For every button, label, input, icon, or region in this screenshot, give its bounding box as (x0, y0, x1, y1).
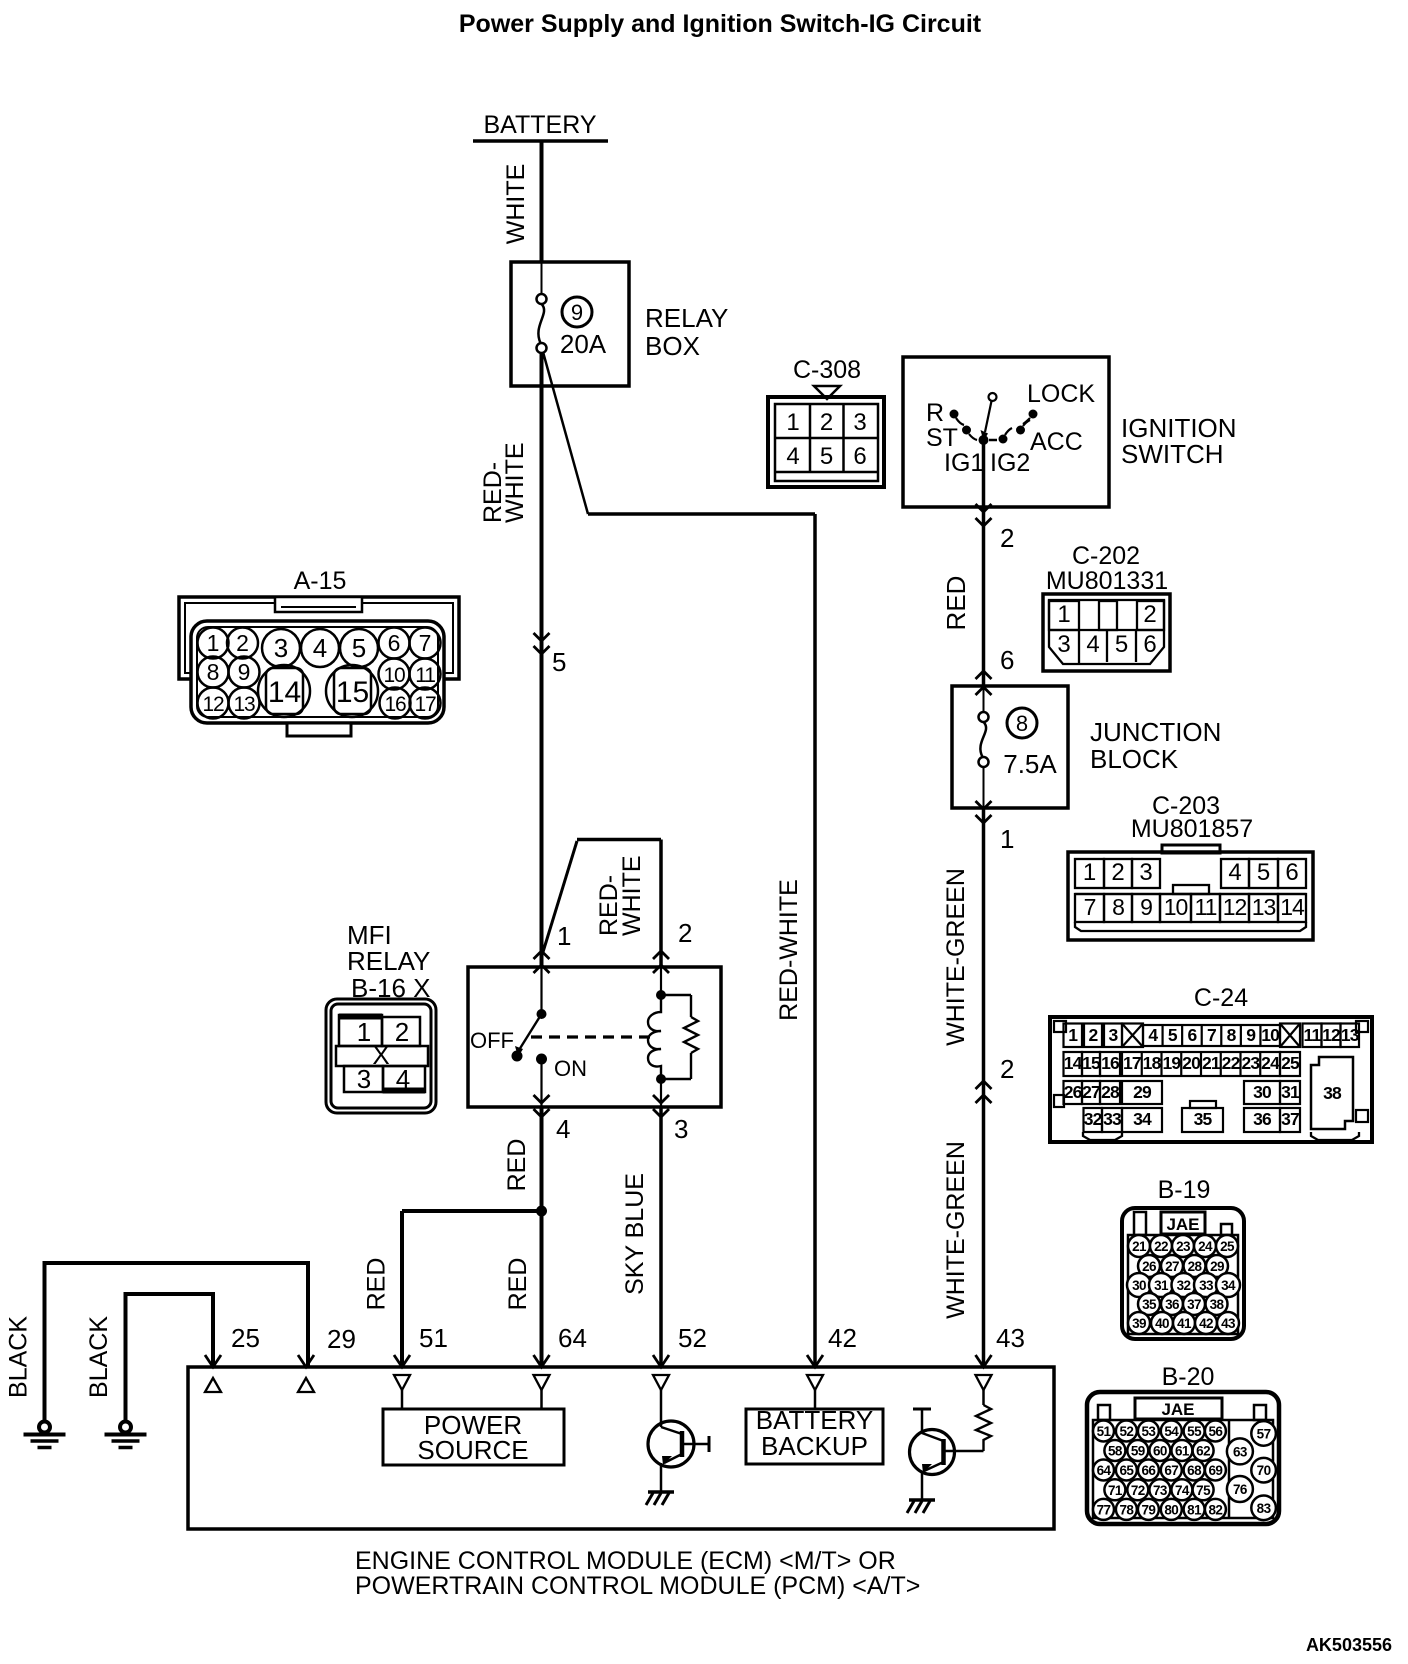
A-15 pin 15 (326, 665, 378, 717)
svg-text:AK503556: AK503556 (1306, 1635, 1392, 1655)
svg-text:51: 51 (419, 1323, 448, 1353)
svg-text:52: 52 (678, 1323, 707, 1353)
svg-text:12: 12 (1223, 894, 1247, 920)
svg-text:8: 8 (1016, 711, 1028, 736)
svg-text:62: 62 (1196, 1444, 1210, 1459)
contact dot R (950, 410, 959, 419)
MFI coil wire upper (660, 967, 662, 995)
resistor R1 (976, 1405, 991, 1451)
svg-text:6: 6 (1000, 645, 1014, 675)
B-19 pin row at y=1246 (1128, 1235, 1150, 1257)
A-15 pin 4 (301, 629, 339, 667)
svg-text:6: 6 (1285, 859, 1298, 886)
svg-text:RED: RED (941, 576, 971, 631)
svg-text:1: 1 (1057, 601, 1070, 628)
svg-text:20: 20 (1182, 1053, 1201, 1073)
C-24 shell notches (1054, 1021, 1066, 1032)
A-15 pin 9 (229, 657, 260, 688)
C-24 outer shell (1050, 1017, 1372, 1142)
B-20 JAE box (1135, 1398, 1222, 1419)
svg-text:WHITE-GREEN: WHITE-GREEN (942, 868, 970, 1046)
B-19 JAE box (1161, 1212, 1205, 1234)
A-15 bottom tab (287, 723, 351, 736)
ECM pin 25 triangle (205, 1378, 221, 1392)
MFI switch pole dot (537, 1009, 547, 1019)
svg-text:RED: RED (504, 1258, 532, 1311)
svg-text:WHITE: WHITE (618, 855, 646, 936)
relay box (511, 262, 629, 386)
fuse 8 circle label (1007, 708, 1037, 738)
svg-text:27: 27 (1165, 1259, 1179, 1274)
svg-text:43: 43 (1221, 1316, 1236, 1331)
svg-text:63: 63 (1233, 1444, 1248, 1459)
svg-text:25: 25 (1281, 1053, 1300, 1073)
svg-text:29: 29 (1133, 1082, 1152, 1102)
A-15 pin 11 (410, 659, 441, 690)
fuse 9 circle label (562, 297, 592, 327)
svg-text:37: 37 (1187, 1297, 1201, 1312)
svg-text:5: 5 (820, 443, 833, 470)
svg-text:64: 64 (558, 1323, 587, 1353)
svg-text:31: 31 (1154, 1278, 1169, 1293)
svg-text:9: 9 (571, 300, 583, 325)
svg-text:25: 25 (1220, 1239, 1235, 1254)
wire MFI pin3 to ECM pin 52 (SKY BLUE) (659, 1107, 663, 1367)
svg-text:80: 80 (1164, 1502, 1178, 1517)
MFI parallel resistor (661, 994, 691, 996)
svg-text:ACC: ACC (1030, 428, 1083, 456)
svg-text:3: 3 (274, 633, 288, 663)
svg-text:35: 35 (1194, 1109, 1213, 1129)
MFI OFF contact (512, 1051, 523, 1062)
svg-text:14: 14 (268, 676, 301, 709)
svg-text:39: 39 (1132, 1316, 1146, 1331)
A-15 pin 3 (262, 629, 300, 667)
svg-text:C-24: C-24 (1194, 984, 1248, 1012)
svg-text:BLACK: BLACK (5, 1316, 33, 1398)
POWER SOURCE box (383, 1409, 564, 1465)
svg-text:30: 30 (1253, 1082, 1272, 1102)
svg-text:42: 42 (828, 1323, 857, 1353)
pin arrowhead at x=402 (394, 1355, 410, 1367)
svg-text:SWITCH: SWITCH (1121, 439, 1224, 469)
svg-text:34: 34 (1133, 1109, 1152, 1129)
svg-text:3: 3 (1057, 631, 1070, 658)
MFI coil top node (656, 990, 666, 1000)
svg-text:22: 22 (1154, 1239, 1168, 1254)
svg-text:BATTERY: BATTERY (484, 111, 597, 139)
ECM input triangle x=402 (394, 1375, 410, 1390)
svg-text:29: 29 (1210, 1259, 1224, 1274)
svg-text:22: 22 (1222, 1053, 1241, 1073)
svg-text:15: 15 (1082, 1053, 1101, 1073)
svg-text:26: 26 (1064, 1082, 1083, 1102)
arrows leaving MFI relay pin4 (534, 1095, 550, 1103)
svg-text:24: 24 (1261, 1053, 1280, 1073)
svg-text:5: 5 (1168, 1025, 1178, 1045)
svg-text:11: 11 (1195, 894, 1217, 920)
transistor Q2 (910, 1430, 955, 1475)
ECM input triangle x=661 (653, 1375, 669, 1390)
svg-text:16: 16 (385, 693, 406, 716)
B-20 pin row at y=1509.4 (1093, 1499, 1114, 1520)
wire MFI pin4 to ECM pin 64 (RED) (540, 1107, 544, 1367)
svg-text:WHITE: WHITE (501, 442, 529, 523)
svg-text:7: 7 (1084, 894, 1096, 920)
svg-text:ON: ON (554, 1056, 587, 1081)
svg-text:66: 66 (1141, 1463, 1156, 1478)
wire ignition switch to junction block (RED) (982, 507, 986, 686)
svg-text:25: 25 (231, 1323, 260, 1353)
svg-text:68: 68 (1187, 1463, 1202, 1478)
C-24 row1 cells (1064, 1024, 1083, 1048)
ECM input triangle x=541.5 (534, 1375, 550, 1390)
diagonal wire from fuse 9 (543, 352, 588, 514)
svg-text:BOX: BOX (645, 331, 700, 361)
wire to ECM pin 42 (RED-WHITE) (813, 514, 817, 1367)
A-15 top tab (275, 597, 362, 612)
B-19 shell (1122, 1208, 1244, 1339)
svg-text:6: 6 (853, 443, 866, 470)
MFI switch lever to OFF (519, 1014, 542, 1050)
svg-text:10: 10 (384, 664, 405, 687)
svg-text:61: 61 (1175, 1444, 1190, 1459)
C-308 pointer triangle (814, 386, 840, 399)
svg-text:11: 11 (1304, 1025, 1322, 1045)
ground symbol 1 (39, 1422, 50, 1433)
svg-text:40: 40 (1155, 1316, 1169, 1331)
svg-text:RED: RED (363, 1258, 391, 1311)
svg-text:15: 15 (336, 676, 369, 709)
svg-text:3: 3 (674, 1114, 688, 1144)
svg-text:5: 5 (352, 633, 366, 663)
svg-text:21: 21 (1132, 1239, 1147, 1254)
A-15 pin 12 (198, 688, 229, 719)
svg-text:JAE: JAE (1161, 1400, 1194, 1419)
svg-text:RED: RED (503, 1139, 531, 1192)
svg-text:73: 73 (1153, 1483, 1168, 1498)
svg-text:18: 18 (1143, 1053, 1162, 1073)
fuse F8 symbol (979, 712, 989, 722)
C-24 bottom tabs (1083, 1132, 1122, 1140)
svg-text:4: 4 (786, 443, 799, 470)
svg-text:WHITE: WHITE (502, 164, 530, 245)
svg-text:3: 3 (1139, 859, 1152, 886)
contact dot IG2 (999, 435, 1008, 444)
svg-text:3: 3 (1109, 1025, 1119, 1045)
svg-text:10: 10 (1164, 894, 1188, 920)
svg-text:12: 12 (1322, 1025, 1341, 1045)
svg-text:19: 19 (1162, 1053, 1181, 1073)
svg-text:2: 2 (1111, 859, 1124, 886)
B-20 inner box (1093, 1420, 1273, 1518)
svg-text:56: 56 (1208, 1424, 1223, 1439)
ignition switch lever pivot circle (989, 393, 997, 401)
A-15 pin 1 (198, 628, 229, 659)
svg-text:67: 67 (1164, 1463, 1178, 1478)
svg-text:9: 9 (1246, 1025, 1256, 1045)
wire battery to relay box (WHITE) (540, 141, 544, 263)
svg-text:3: 3 (357, 1064, 371, 1094)
B-16 cell 4 (383, 1066, 425, 1092)
svg-text:OFF: OFF (470, 1028, 514, 1053)
svg-text:53: 53 (1141, 1424, 1156, 1439)
svg-text:IG2: IG2 (990, 449, 1030, 477)
svg-text:2: 2 (1089, 1025, 1099, 1045)
transistor Q1 stem (660, 1390, 663, 1427)
Q1 ground (648, 1490, 674, 1494)
battery bus bar (473, 139, 608, 143)
BATTERY BACKUP box (746, 1409, 883, 1464)
MFI switch wire lower (540, 1059, 542, 1107)
svg-text:LOCK: LOCK (1027, 380, 1095, 408)
C-24 row4 cells (1084, 1108, 1103, 1132)
svg-text:43: 43 (996, 1323, 1025, 1353)
svg-text:1: 1 (1083, 859, 1096, 886)
svg-text:23: 23 (1176, 1239, 1191, 1254)
B-16 cell 3 (344, 1066, 383, 1092)
svg-text:B-19: B-19 (1158, 1176, 1211, 1204)
svg-text:79: 79 (1141, 1502, 1155, 1517)
svg-text:41: 41 (1177, 1316, 1192, 1331)
svg-text:4: 4 (1228, 859, 1241, 886)
ground symbol 2 (120, 1422, 131, 1433)
contact dot LOCK (1029, 410, 1038, 419)
B-20 pin row at y=1450.5 (1104, 1440, 1125, 1461)
B-20 shell (1087, 1392, 1279, 1524)
MFI coil wire lower (660, 1079, 662, 1107)
A-15 pin 10 (379, 659, 410, 690)
svg-text:21: 21 (1202, 1053, 1221, 1073)
A-15 pin 14 (258, 665, 310, 717)
ECM input triangle x=815 (807, 1375, 823, 1390)
svg-text:ENGINE CONTROL MODULE (ECM) <M: ENGINE CONTROL MODULE (ECM) <M/T> OR (355, 1547, 896, 1575)
arrow on wire at pin 5 (534, 633, 550, 641)
pin arrowhead at x=661 (653, 1355, 669, 1367)
ECM pin 29 triangle (298, 1378, 314, 1392)
svg-text:57: 57 (1257, 1426, 1271, 1441)
svg-text:ST: ST (926, 424, 958, 452)
svg-text:52: 52 (1119, 1424, 1133, 1439)
svg-text:29: 29 (327, 1324, 356, 1354)
svg-text:4: 4 (1148, 1025, 1158, 1045)
svg-text:58: 58 (1108, 1444, 1123, 1459)
svg-text:14: 14 (1280, 894, 1305, 920)
C-24 row3 cells (1064, 1081, 1083, 1104)
svg-text:2: 2 (678, 918, 692, 948)
wire to MFI pin 2 (RED-WHITE) (659, 840, 663, 968)
svg-text:33: 33 (1103, 1109, 1122, 1129)
svg-text:8: 8 (1112, 894, 1124, 920)
MFI coil bottom node (656, 1074, 666, 1084)
arrow on white-green wire (976, 1081, 992, 1089)
svg-text:1: 1 (1068, 1025, 1078, 1045)
horizontal wire to battery-backup feed (588, 512, 815, 516)
svg-text:12: 12 (203, 693, 224, 716)
B-20 pin row at y=1489.8 (1104, 1479, 1125, 1500)
MFI switch wire upper (540, 967, 542, 1010)
svg-text:83: 83 (1257, 1501, 1272, 1516)
svg-text:A-15: A-15 (294, 567, 347, 595)
MFI relay coil (648, 995, 661, 1079)
svg-text:2: 2 (236, 630, 249, 656)
svg-text:69: 69 (1208, 1463, 1222, 1478)
svg-text:2: 2 (820, 409, 833, 436)
svg-text:1: 1 (786, 409, 799, 436)
resistor R1 stem (982, 1390, 985, 1405)
C-24 row2 cells (1064, 1052, 1083, 1076)
svg-text:26: 26 (1142, 1259, 1157, 1274)
svg-text:17: 17 (1123, 1053, 1141, 1073)
arrow entering junction block (976, 671, 992, 679)
svg-text:7: 7 (419, 630, 432, 656)
A-15 body (191, 621, 444, 723)
svg-text:27: 27 (1082, 1082, 1100, 1102)
A-15 pin 5 (340, 629, 378, 667)
svg-text:23: 23 (1241, 1053, 1260, 1073)
MFI relay box (468, 967, 721, 1107)
svg-text:74: 74 (1175, 1483, 1190, 1498)
B-16 X band (336, 1046, 428, 1066)
svg-text:82: 82 (1208, 1502, 1222, 1517)
svg-text:RELAY: RELAY (645, 303, 728, 333)
svg-text:24: 24 (1198, 1239, 1213, 1254)
B-19 right tab (1221, 1224, 1232, 1235)
branch wire to ECM pin 51 (402, 1209, 542, 1213)
ECM box (188, 1367, 1054, 1529)
ground wire 1 (ECM pin 29) (45, 1263, 309, 1422)
svg-text:14: 14 (1064, 1053, 1083, 1073)
pin arrowhead at x=541.5 (534, 1355, 550, 1367)
C-308 connector body (768, 397, 884, 487)
fuse F9 symbol (537, 294, 547, 304)
transistor Q1 (648, 1421, 694, 1467)
svg-text:81: 81 (1187, 1502, 1202, 1517)
svg-text:1: 1 (1000, 824, 1014, 854)
B-19 pin row at y=1266 (1138, 1255, 1160, 1277)
svg-text:BLOCK: BLOCK (1090, 744, 1179, 774)
svg-text:4: 4 (1086, 631, 1099, 658)
svg-text:10: 10 (1261, 1025, 1280, 1045)
contact dot IG1 (common) (979, 435, 989, 445)
arrows entering MFI relay pin1 (534, 951, 550, 959)
svg-text:11: 11 (415, 664, 435, 687)
Q2 collector wire (944, 1450, 984, 1453)
B-20 left tab (1098, 1405, 1110, 1420)
svg-text:76: 76 (1233, 1482, 1248, 1497)
pin arrowhead at x=983.5 (976, 1355, 992, 1367)
junction node (536, 1206, 547, 1217)
MFI relay diagonal wire (543, 841, 577, 952)
svg-text:RED-WHITE: RED-WHITE (775, 879, 803, 1021)
svg-text:42: 42 (1199, 1316, 1213, 1331)
MFI dashed actuation line (531, 1035, 652, 1038)
svg-text:WHITE-GREEN: WHITE-GREEN (942, 1141, 970, 1319)
pin arrowhead at x=815 (807, 1355, 823, 1367)
MFI relay link wire (577, 838, 661, 842)
svg-text:2: 2 (1143, 601, 1156, 628)
svg-text:MU801331: MU801331 (1046, 567, 1168, 595)
arrows leaving MFI relay pin3 (653, 1095, 669, 1103)
B-20 right tab (1254, 1405, 1266, 1420)
B-19 pin row at y=1285 (1127, 1273, 1151, 1297)
fuse 8 lead-in (983, 686, 985, 712)
svg-text:9: 9 (1140, 894, 1152, 920)
svg-text:54: 54 (1164, 1424, 1179, 1439)
svg-text:2: 2 (1000, 523, 1014, 553)
A-15 rear shell (179, 597, 459, 679)
svg-text:35: 35 (1142, 1297, 1157, 1312)
svg-text:28: 28 (1188, 1259, 1203, 1274)
svg-text:64: 64 (1097, 1463, 1112, 1478)
dash between IG1 and IG2 (989, 439, 997, 442)
svg-text:3: 3 (853, 409, 866, 436)
svg-text:13: 13 (234, 693, 255, 716)
svg-text:JUNCTION: JUNCTION (1090, 717, 1221, 747)
svg-text:POWERTRAIN CONTROL MODULE (PCM: POWERTRAIN CONTROL MODULE (PCM) <A/T> (355, 1572, 920, 1600)
B-20 pin row at y=1470 (1093, 1460, 1114, 1481)
svg-text:7.5A: 7.5A (1003, 749, 1057, 779)
pin arrowhead at x=306 (298, 1355, 314, 1367)
power source stems (401, 1390, 404, 1409)
svg-text:RELAY: RELAY (347, 946, 430, 976)
svg-text:SOURCE: SOURCE (417, 1435, 528, 1465)
svg-text:5: 5 (552, 647, 566, 677)
svg-text:5: 5 (1115, 631, 1128, 658)
C-202 connector body (1043, 594, 1170, 671)
B-19 left tab (1134, 1212, 1146, 1235)
svg-text:6: 6 (1188, 1025, 1198, 1045)
svg-text:BLACK: BLACK (85, 1316, 113, 1398)
wire junction block to ECM (WHITE-GREEN) (982, 808, 986, 1367)
svg-text:33: 33 (1199, 1278, 1214, 1293)
svg-text:71: 71 (1108, 1483, 1123, 1498)
svg-text:36: 36 (1165, 1297, 1180, 1312)
svg-text:7: 7 (1207, 1025, 1216, 1045)
svg-text:36: 36 (1253, 1109, 1272, 1129)
wire IG1 down inside switch (982, 440, 986, 507)
svg-text:BACKUP: BACKUP (761, 1431, 868, 1461)
battery backup stem (814, 1390, 817, 1409)
arrow leaving ignition switch (976, 504, 992, 512)
svg-text:1: 1 (557, 921, 571, 951)
svg-text:38: 38 (1210, 1297, 1225, 1312)
B-16 cell 1 (339, 1015, 382, 1046)
arrow leaving junction block (976, 801, 992, 809)
svg-text:2: 2 (395, 1017, 409, 1047)
B-19 inner box (1128, 1235, 1238, 1334)
pin arrowhead at x=213 (205, 1355, 221, 1367)
ignition switch lever (985, 401, 992, 432)
svg-text:C-308: C-308 (793, 356, 861, 384)
B-20 right column pins (1251, 1421, 1276, 1446)
svg-text:5: 5 (1257, 859, 1270, 886)
B-16 cell 2 (382, 1017, 420, 1046)
Q1 emitter wire (660, 1463, 663, 1492)
svg-text:70: 70 (1257, 1463, 1271, 1478)
svg-text:75: 75 (1196, 1483, 1211, 1498)
svg-text:1: 1 (357, 1017, 371, 1047)
svg-text:72: 72 (1131, 1483, 1145, 1498)
svg-text:4: 4 (313, 633, 327, 663)
svg-text:Power Supply and Ignition Swit: Power Supply and Ignition Switch-IG Circ… (459, 10, 982, 38)
A-15 pin 8 (198, 657, 229, 688)
svg-text:65: 65 (1119, 1463, 1134, 1478)
svg-text:37: 37 (1281, 1109, 1299, 1129)
ignition switch box (903, 357, 1109, 507)
fuse 8 lead-out (983, 767, 985, 808)
A-15 pin 13 (229, 688, 260, 719)
